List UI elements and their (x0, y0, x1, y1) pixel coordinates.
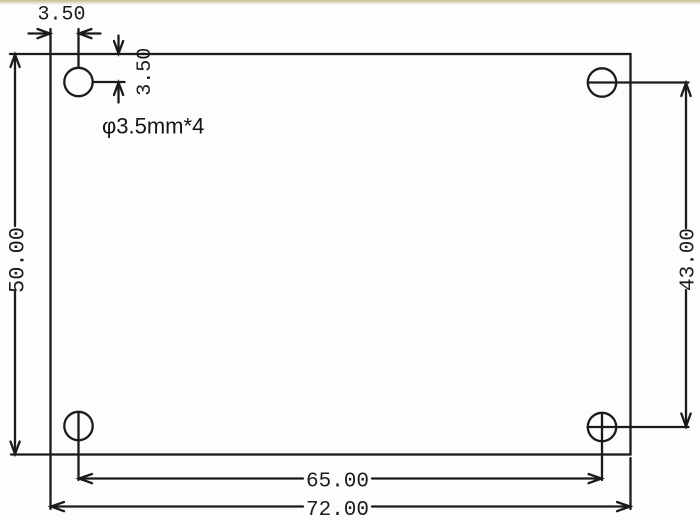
dimension 3.50 vertical top-left (93, 36, 125, 103)
dimension 50.00 left (10, 54, 49, 455)
svg-text:72.00: 72.00 (306, 499, 369, 520)
board outline (51, 54, 631, 455)
dimension 3.50 horizontal top-left (29, 29, 101, 68)
svg-text:65.00: 65.00 (306, 471, 369, 494)
dimension 65.00 bottom (79, 412, 603, 483)
mounting hole bottom-left (64, 412, 92, 440)
svg-text:50.00: 50.00 (6, 227, 31, 293)
mounting hole top-right (588, 68, 616, 96)
dimension 72.00 bottom (51, 456, 631, 511)
dimension 43.00 right (588, 83, 691, 428)
svg-text:3.50: 3.50 (134, 48, 157, 96)
svg-text:3.50: 3.50 (37, 4, 85, 27)
mounting hole top-left (64, 68, 92, 96)
svg-text:43.00: 43.00 (678, 228, 700, 291)
mounting hole bottom-right (588, 413, 616, 441)
svg-text:φ3.5mm*4: φ3.5mm*4 (102, 114, 204, 139)
